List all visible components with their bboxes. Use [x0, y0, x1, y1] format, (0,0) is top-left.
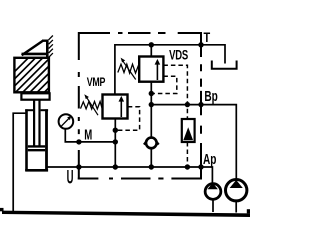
- svg-text:T: T: [204, 30, 211, 46]
- svg-text:Ap: Ap: [203, 151, 217, 167]
- svg-text:VDS: VDS: [169, 48, 188, 63]
- svg-text:Bp: Bp: [204, 88, 218, 104]
- svg-text:VMP: VMP: [87, 77, 106, 89]
- svg-text:U: U: [67, 167, 74, 189]
- svg-text:M: M: [84, 126, 92, 143]
